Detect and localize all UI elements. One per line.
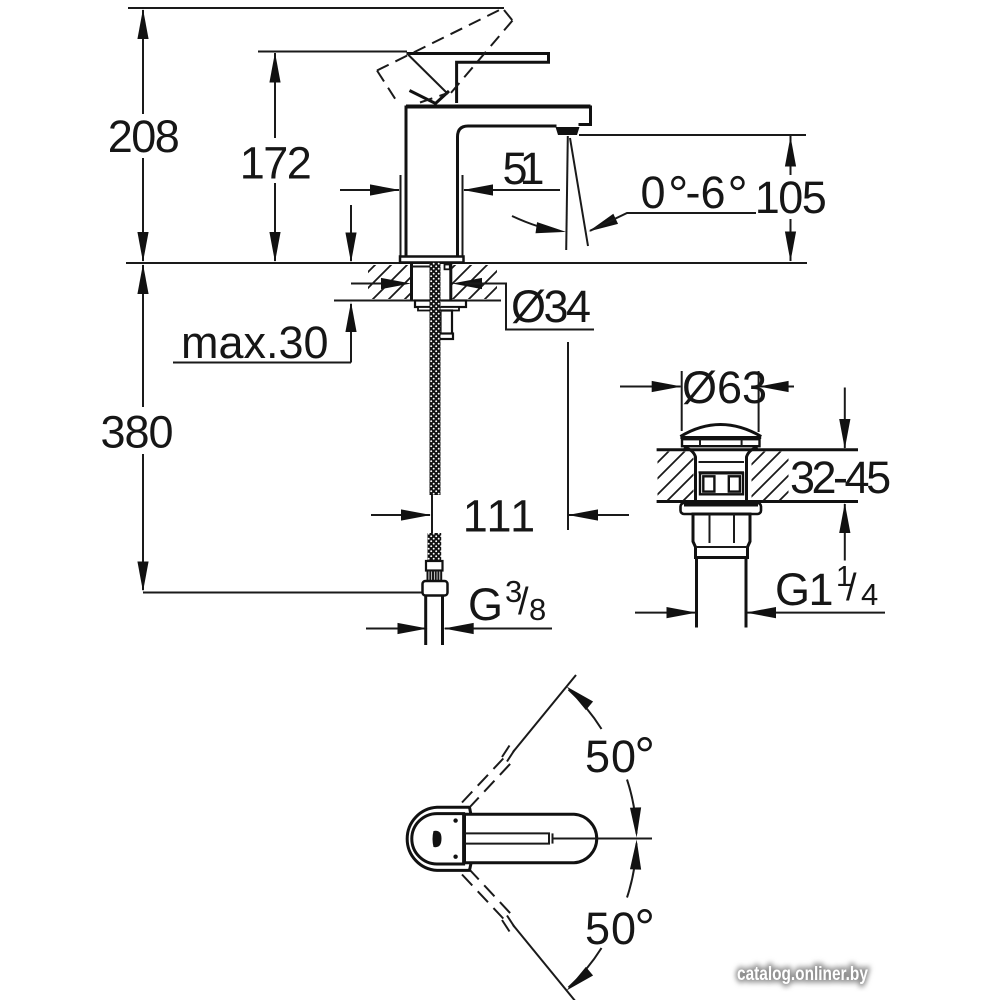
upper break symbol [500, 744, 516, 762]
svg-text:/: / [518, 581, 529, 623]
waste hex nut [693, 514, 750, 558]
svg-text:105: 105 [755, 172, 826, 223]
reference line (handle top level) [258, 51, 407, 53]
svg-text:32-45: 32-45 [790, 452, 890, 503]
svg-text:50: 50 [585, 903, 637, 954]
top reference line (handle raised level) [128, 7, 504, 9]
dimension 208 [108, 9, 179, 262]
waste body in slab [684, 447, 758, 501]
svg-text:catalog.onliner.by: catalog.onliner.by [737, 962, 868, 984]
waste cap dome [680, 425, 761, 447]
dimension 111 [371, 342, 629, 542]
dimension 172 [240, 53, 311, 263]
waste body windows [700, 473, 743, 494]
svg-text:4: 4 [861, 577, 878, 612]
svg-text:111: 111 [463, 491, 537, 542]
handle lever (solid) [407, 54, 549, 104]
lower break symbol [500, 915, 516, 933]
watermark text [737, 962, 868, 984]
svg-text:G: G [468, 579, 502, 630]
mounting step [418, 307, 459, 311]
hose break centerline [431, 495, 433, 533]
escutcheon outer outline [407, 807, 471, 870]
hose hex nut [423, 581, 448, 596]
svg-text:8: 8 [529, 592, 546, 627]
counter slab bottom line [334, 300, 501, 302]
faucet body outline [406, 106, 591, 257]
angle arc 0-6 [512, 216, 567, 237]
water stream [566, 136, 588, 250]
handle mark [433, 831, 442, 847]
flexible hose upper [430, 263, 441, 496]
mounting washer [415, 301, 466, 308]
leader 0-6 [586, 213, 756, 237]
aerator [556, 127, 580, 135]
svg-text:172: 172 [240, 138, 311, 189]
svg-text:max.30: max.30 [181, 317, 329, 368]
waste washer [681, 502, 762, 515]
base plate [400, 257, 464, 263]
dimension 51 [340, 143, 560, 257]
screw dot upper [453, 818, 457, 822]
spout height reference line [579, 134, 806, 136]
svg-text:380: 380 [100, 407, 172, 458]
hose end reference line [143, 592, 422, 594]
rotation arc upper [563, 682, 642, 837]
svg-text:G1: G1 [775, 564, 832, 615]
dimension D63 [620, 362, 794, 432]
handle lever raised (dashed) [377, 10, 513, 105]
mounting stud nut [440, 311, 454, 340]
shank through counter [412, 264, 451, 301]
handle rotated -50 (dashed lower, two edges) [462, 869, 511, 923]
dimension max.30 [173, 205, 357, 368]
upper extension line [513, 675, 576, 752]
dimension 105 [755, 136, 826, 262]
handle rotated +50 (dashed upper, two edges) [462, 755, 511, 809]
handle lever capsule [465, 814, 597, 863]
svg-text:-6: -6 [686, 167, 726, 218]
deck reference line [126, 262, 807, 264]
svg-text:51: 51 [503, 143, 543, 194]
counter slab hatching [368, 265, 497, 299]
basin slab hatching [658, 452, 789, 501]
lever slot [465, 833, 553, 843]
rotation arc lower [563, 839, 642, 994]
svg-text:208: 208 [108, 111, 179, 162]
hose nipple G3/8 [426, 596, 443, 646]
dimension D34 [351, 278, 594, 332]
screw dot lower [453, 855, 457, 859]
dimension 32-45 [790, 388, 890, 561]
flexible hose lower [428, 533, 442, 561]
handle base D [412, 814, 464, 864]
hose collar [426, 561, 443, 571]
dimension 380 [100, 264, 172, 592]
waste tailpipe G1 1/4 [697, 558, 747, 628]
svg-text:0: 0 [641, 167, 666, 218]
svg-text:50: 50 [585, 731, 637, 782]
hose knurl [428, 571, 442, 582]
svg-text:Ø63: Ø63 [682, 362, 767, 413]
lower extension line [513, 925, 576, 1000]
dimension G3/8 [366, 574, 552, 634]
centerline [553, 838, 653, 840]
dimension G1 1/4 [635, 561, 885, 618]
svg-text:/: / [846, 567, 857, 609]
basin slab top line [657, 448, 858, 451]
svg-text:Ø34: Ø34 [511, 281, 590, 332]
basin slab bottom line [657, 500, 858, 503]
